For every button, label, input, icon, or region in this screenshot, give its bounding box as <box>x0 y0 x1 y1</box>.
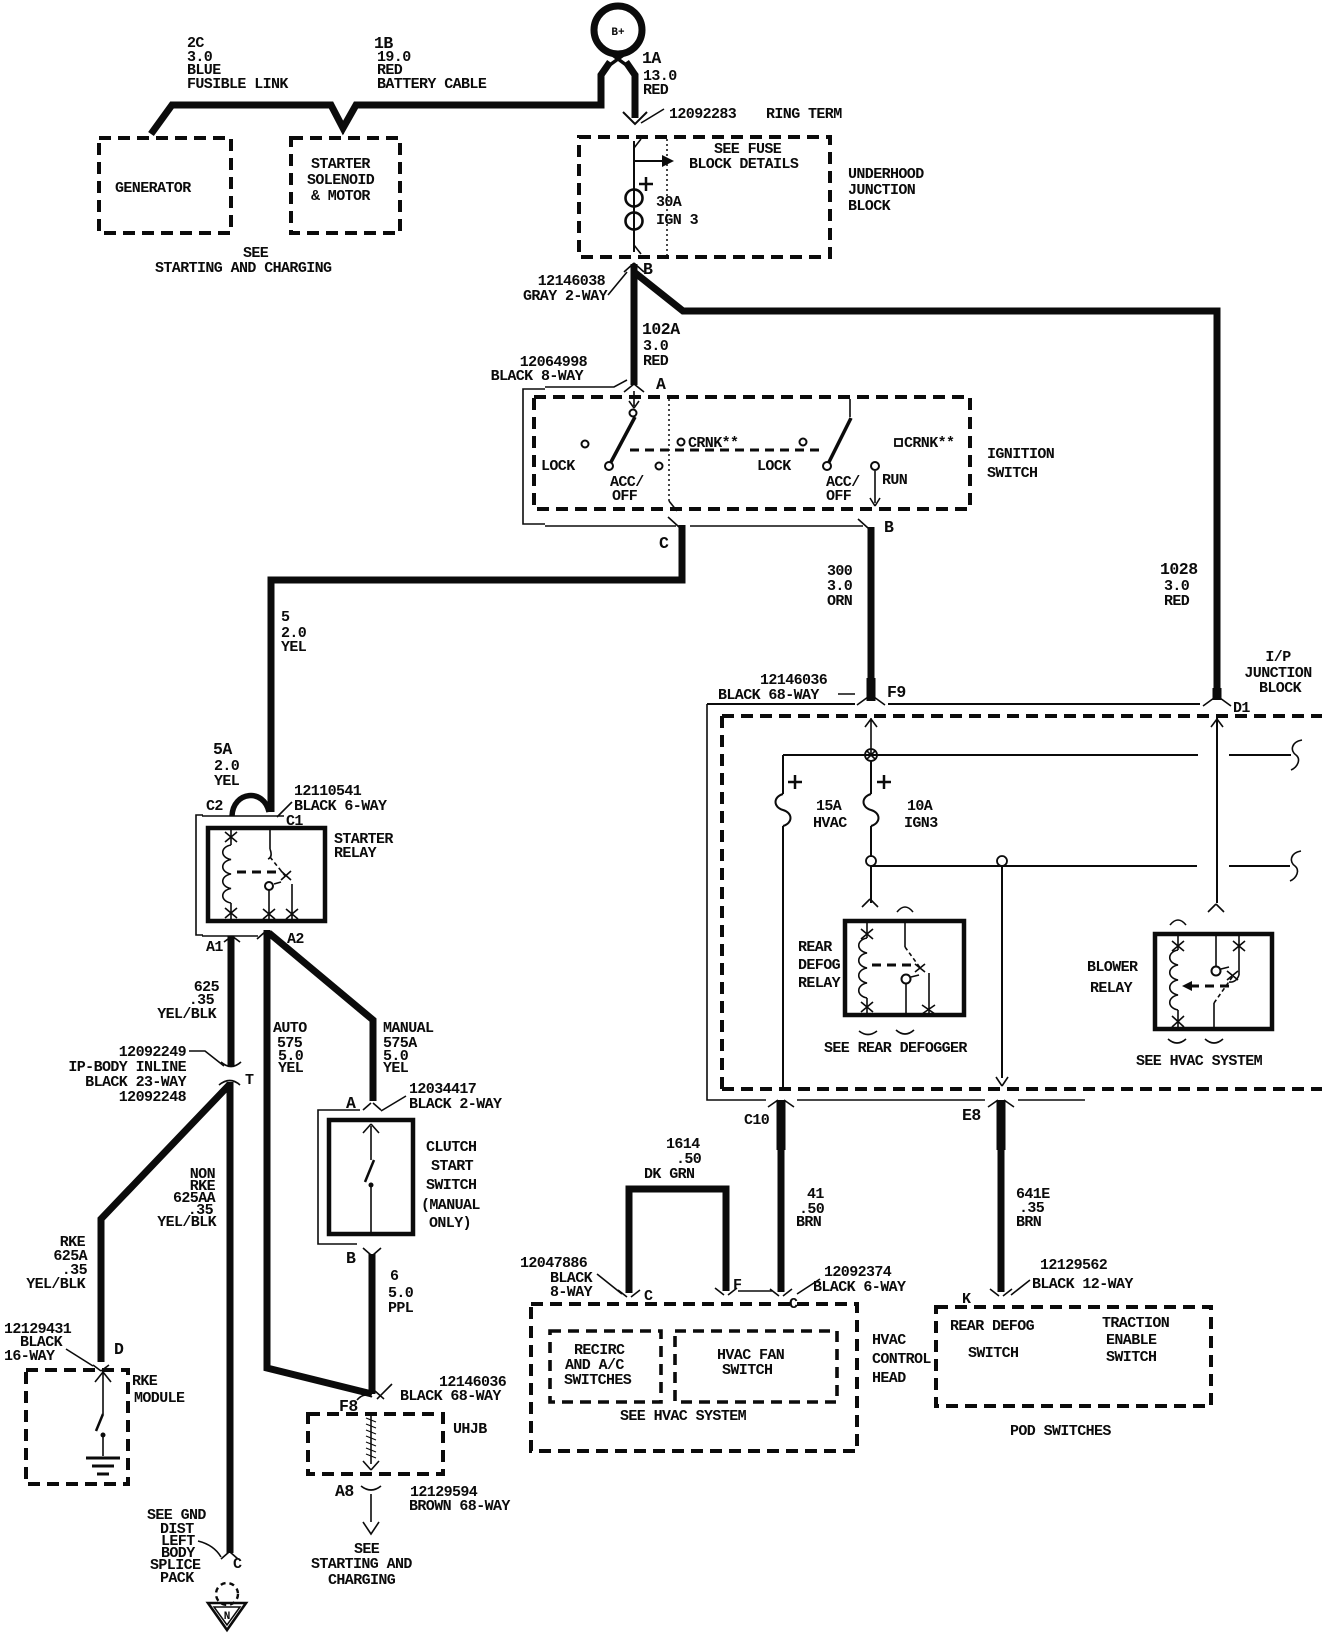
label connector 12034417 BLACK 2-WAY with leader <box>381 1081 502 1113</box>
wire 5A arch into starter relay C1 <box>232 796 269 816</box>
svg-text:REAR: REAR <box>798 939 832 956</box>
svg-text:STARTING AND CHARGING: STARTING AND CHARGING <box>155 260 332 277</box>
label connector 12064998 BLACK 8-WAY with leader <box>491 354 627 387</box>
ignition switch pole 2 feed line <box>849 399 851 417</box>
svg-text:SWITCH: SWITCH <box>987 465 1037 482</box>
wire 1614 jumper loop at HVAC control head <box>629 1189 726 1293</box>
ignition switch dashed box <box>534 397 970 509</box>
connector B of clutch start switch <box>346 1248 381 1268</box>
label see starting and charging <box>311 1541 412 1589</box>
label I/P junction block <box>1244 649 1312 697</box>
label wire 102A <box>642 320 680 370</box>
label rear defog relay <box>798 939 841 992</box>
RKE module internal switch <box>95 1372 111 1456</box>
rear defog relay coil <box>859 921 873 1015</box>
wire from fuse 10A to rail 2 <box>870 826 872 857</box>
ground splice pack circle <box>216 1583 238 1605</box>
svg-text:102A: 102A <box>642 320 680 339</box>
note SEE STARTING AND CHARGING <box>155 245 332 277</box>
svg-text:GENERATOR: GENERATOR <box>115 180 191 197</box>
svg-text:I/P: I/P <box>1265 649 1291 666</box>
svg-text:SWITCH: SWITCH <box>968 1345 1018 1362</box>
svg-text:SOLENOID: SOLENOID <box>307 172 375 189</box>
blower relay switch blade <box>1214 971 1238 1029</box>
starter relay coil <box>223 828 237 921</box>
connector B of ignition switch <box>858 518 894 537</box>
rear defog relay dashed actuator link <box>872 964 916 967</box>
svg-text:E8: E8 <box>962 1106 981 1125</box>
branch arrow SEE FUSE BLOCK DETAILS <box>634 141 799 173</box>
connector A2 of starter relay <box>257 931 304 948</box>
svg-text:BLOCK DETAILS: BLOCK DETAILS <box>689 156 799 173</box>
svg-text:IGN3: IGN3 <box>904 815 938 832</box>
svg-text:ORN: ORN <box>827 593 853 610</box>
label wire 5 <box>281 609 307 656</box>
wire junction stub at starter solenoid <box>342 128 344 134</box>
svg-text:YEL/BLK: YEL/BLK <box>157 1006 216 1023</box>
ground symbol inside RKE module <box>86 1458 120 1474</box>
bus rail 2 inside I/P junction block <box>871 865 1290 867</box>
connector F9 stub <box>857 678 906 705</box>
wire to fuse 10A <box>870 761 872 794</box>
svg-text:5A: 5A <box>213 740 232 759</box>
ignition switch lever 2 wiper contact <box>823 462 831 470</box>
svg-text:STARTER: STARTER <box>311 156 370 173</box>
svg-text:16-WAY: 16-WAY <box>4 1348 55 1365</box>
svg-text:YEL: YEL <box>383 1060 409 1077</box>
fuse 15A HVAC symbol <box>776 794 791 826</box>
svg-text:HEAD: HEAD <box>872 1370 906 1387</box>
wire 6 PPL from clutch switch B to F8 <box>369 1254 376 1394</box>
svg-text:D: D <box>114 1340 124 1359</box>
svg-text:LOCK: LOCK <box>757 458 791 475</box>
blower relay right pin <box>1229 934 1245 982</box>
svg-text:PACK: PACK <box>160 1570 194 1587</box>
svg-text:10A: 10A <box>907 798 933 815</box>
svg-text:JUNCTION: JUNCTION <box>848 182 916 199</box>
svg-text:HVAC: HVAC <box>813 815 847 832</box>
plus polarity mark <box>639 177 653 191</box>
svg-text:TRACTION: TRACTION <box>1102 1315 1170 1332</box>
HVAC control head dashed box <box>531 1304 857 1451</box>
svg-text:LOCK: LOCK <box>541 458 575 475</box>
label fuse 30A IGN 3 <box>656 194 699 229</box>
ignition switch pole 1 entry arrow from A <box>629 391 639 417</box>
svg-text:CRNK**: CRNK** <box>904 435 954 452</box>
label connector 12146036 BLACK 68-WAY at F8 with leader <box>377 1374 507 1405</box>
RUN output line with arrow to B <box>870 471 880 506</box>
svg-text:OFF: OFF <box>612 488 638 505</box>
svg-text:SEE HVAC SYSTEM: SEE HVAC SYSTEM <box>1136 1053 1263 1070</box>
hvac fan switch dashed box <box>675 1331 837 1402</box>
wire 41 from C10 to HVAC control head <box>778 1148 785 1292</box>
label connector 12110541 BLACK 6-WAY with leader <box>277 783 387 817</box>
contact LOCK position pole 2 <box>800 439 807 446</box>
label hvac control head <box>872 1332 931 1387</box>
starter relay connector bracket <box>196 815 203 935</box>
plus mark fuse 15A <box>788 775 802 789</box>
svg-text:PPL: PPL <box>388 1300 414 1317</box>
label clutch start switch <box>421 1139 480 1232</box>
label wire 2C fusible link <box>187 35 288 93</box>
svg-text:SWITCH: SWITCH <box>722 1362 772 1379</box>
starter relay common contact <box>263 882 281 921</box>
connector A of clutch start switch <box>346 1094 381 1113</box>
blower relay pin arc marker <box>1170 920 1186 925</box>
clutch start switch internal contact <box>363 1124 379 1234</box>
label wire 1614 <box>644 1136 702 1183</box>
wire 5 from ignition C to starter relay C1 <box>271 525 682 812</box>
svg-text:BLOCK: BLOCK <box>848 198 891 215</box>
blower relay lower pin arcs <box>1168 1039 1223 1043</box>
svg-text:BLOCK: BLOCK <box>1259 680 1302 697</box>
recirc and a/c switches dashed box <box>550 1331 661 1402</box>
connector D of RKE module <box>93 1340 124 1371</box>
connector F8 of UHJB <box>339 1391 384 1416</box>
label connector 12092374 BLACK 6-WAY with leader <box>797 1264 906 1296</box>
svg-text:UNDERHOOD: UNDERHOOD <box>848 166 924 183</box>
wire 102A from B to ignition switch A <box>631 264 638 385</box>
label see gnd dist left body splice pack with leader <box>147 1507 221 1587</box>
blower relay dashed actuator link with arrow <box>1182 981 1230 991</box>
svg-text:& MOTOR: & MOTOR <box>311 188 370 205</box>
label connector 12129431 BLACK 16-WAY with leader <box>4 1321 93 1366</box>
label wire 625 <box>157 979 219 1023</box>
svg-text:FUSIBLE LINK: FUSIBLE LINK <box>187 76 288 93</box>
label wire 1B battery cable <box>374 34 487 93</box>
bus rail 1 inside I/P junction block <box>783 754 1291 756</box>
svg-text:RED: RED <box>1164 593 1190 610</box>
wire from A8 to starting and charging with arrow <box>363 1494 379 1534</box>
svg-text:T: T <box>245 1072 254 1089</box>
circuit break symbol rail 2 <box>1290 851 1301 881</box>
label wire 1028 <box>1160 560 1198 610</box>
svg-text:RUN: RUN <box>882 472 908 489</box>
svg-text:POD SWITCHES: POD SWITCHES <box>1010 1423 1111 1440</box>
ignition switch label <box>987 446 1055 482</box>
underhood junction block dashed box <box>579 137 830 257</box>
label inline connector labels <box>68 1044 224 1106</box>
svg-text:OFF: OFF <box>826 488 852 505</box>
wire 575A MANUAL from A2 to clutch start switch <box>269 933 373 1101</box>
label fuse 15A HVAC <box>813 798 847 832</box>
svg-text:BLACK 6-WAY: BLACK 6-WAY <box>813 1279 906 1296</box>
label connector 12047886 BLACK 8-WAY with leader <box>520 1255 622 1301</box>
RKE module dashed box <box>26 1370 128 1484</box>
svg-text:A: A <box>656 375 666 394</box>
svg-text:BLACK 6-WAY: BLACK 6-WAY <box>294 798 387 815</box>
clutch start switch connector bracket <box>318 1110 360 1244</box>
svg-text:1A: 1A <box>642 49 661 68</box>
svg-text:SWITCH: SWITCH <box>426 1177 476 1194</box>
starter relay dashed actuator link <box>237 871 282 874</box>
svg-text:B+: B+ <box>611 27 625 39</box>
generator box <box>99 138 231 233</box>
svg-text:YEL: YEL <box>281 639 307 656</box>
svg-text:BATTERY CABLE: BATTERY CABLE <box>377 76 487 93</box>
svg-text:1028: 1028 <box>1160 560 1198 579</box>
label RKE module <box>132 1373 185 1407</box>
svg-text:RKE: RKE <box>132 1373 158 1390</box>
svg-text:YEL/BLK: YEL/BLK <box>157 1214 216 1231</box>
wire to fuse 15A <box>782 755 784 794</box>
svg-text:A2: A2 <box>287 931 304 948</box>
wire rail 2 down to rear defog relay <box>870 866 872 903</box>
svg-text:CLUTCH: CLUTCH <box>426 1139 476 1156</box>
rear defog relay pin arc marker <box>897 907 913 912</box>
ignition switch lever 1 wiper contact <box>605 462 613 470</box>
svg-text:BLACK 68-WAY: BLACK 68-WAY <box>718 687 819 704</box>
connector B of underhood junction block <box>624 260 653 279</box>
svg-text:SEE HVAC SYSTEM: SEE HVAC SYSTEM <box>620 1408 747 1425</box>
rear defog relay output pin <box>922 973 935 1015</box>
svg-text:RED: RED <box>643 353 669 370</box>
fuse feed wire inside underhood junction block <box>634 139 641 254</box>
svg-text:HVAC: HVAC <box>872 1332 906 1349</box>
svg-text:15A: 15A <box>816 798 842 815</box>
ignition switch lever 2 <box>829 418 851 462</box>
svg-text:6: 6 <box>390 1268 399 1285</box>
svg-text:30A: 30A <box>656 194 682 211</box>
connector E8 stub <box>962 1100 1014 1150</box>
I/P junction block connector strip line <box>707 703 1200 705</box>
rear defog relay feed connector flare <box>862 899 878 907</box>
svg-text:START: START <box>431 1158 474 1175</box>
svg-text:UHJB: UHJB <box>453 1421 487 1438</box>
starter solenoid and motor box <box>291 138 400 233</box>
wire 300 from ignition B to I/P junction block F9 <box>868 527 875 700</box>
svg-text:BRN: BRN <box>796 1214 822 1231</box>
battery positive terminal B+ <box>594 6 642 67</box>
wire 641E from E8 to pod switches K <box>998 1148 1005 1292</box>
label connector 12146036 BLACK 68-WAY at F9 <box>718 672 855 704</box>
label starter relay <box>334 831 393 862</box>
label wire 575A manual <box>383 1020 434 1077</box>
label wire 625A rke <box>26 1234 87 1293</box>
wire 1028 branch from B to I/P junction block D1 <box>634 272 1217 690</box>
svg-text:IGN 3: IGN 3 <box>656 212 699 229</box>
label wire 300 <box>827 563 853 610</box>
contact RUN position pole 2 <box>871 462 879 470</box>
splice C to ground distribution <box>221 1552 242 1573</box>
wire 1A from B+ to underhood junction block <box>626 62 635 118</box>
dotted partition inside underhood junction block <box>666 139 668 255</box>
UHJB dashed box <box>308 1414 443 1474</box>
starter relay connector strip line C row <box>202 815 284 817</box>
svg-text:C: C <box>659 534 669 553</box>
fuse 30A IGN 3 symbol <box>626 190 643 230</box>
svg-text:B: B <box>884 518 894 537</box>
contact CRNK position pole 2 square <box>895 439 902 446</box>
wire 625 from A1 down to inline connector T <box>228 936 235 1066</box>
svg-text:YEL/BLK: YEL/BLK <box>26 1276 85 1293</box>
label fuse 10A IGN3 <box>904 798 938 832</box>
svg-text:A8: A8 <box>335 1482 354 1501</box>
mechanical link dashed between poles <box>630 449 824 452</box>
svg-text:GRAY 2-WAY: GRAY 2-WAY <box>523 288 608 305</box>
svg-text:REAR DEFOG: REAR DEFOG <box>950 1318 1035 1335</box>
label wire 6 <box>388 1268 414 1317</box>
svg-text:(MANUAL: (MANUAL <box>421 1197 480 1214</box>
connector D1 stub <box>1203 688 1250 717</box>
svg-text:RELAY: RELAY <box>1090 980 1133 997</box>
svg-text:12092248: 12092248 <box>119 1089 187 1106</box>
svg-text:BLACK 12-WAY: BLACK 12-WAY <box>1032 1276 1133 1293</box>
rear defog relay switch pin and blade <box>905 921 925 972</box>
label rear defog switch <box>950 1318 1035 1362</box>
label connector 12129594 BROWN 68-WAY <box>409 1484 510 1515</box>
svg-text:DEFOG: DEFOG <box>798 957 841 974</box>
svg-text:ONLY): ONLY) <box>429 1215 471 1232</box>
label wire 641E <box>1016 1186 1050 1231</box>
blower relay coil <box>1170 934 1184 1029</box>
svg-text:5: 5 <box>281 609 290 626</box>
pod switches dashed box <box>936 1307 1211 1406</box>
svg-text:C: C <box>789 1296 798 1313</box>
svg-text:C2: C2 <box>206 798 223 815</box>
svg-text:F9: F9 <box>887 683 906 702</box>
ignition switch lever 1 <box>611 417 635 462</box>
label 12092283 ring terminal with leader <box>641 106 842 123</box>
HVAC control head connector strip line <box>738 1290 772 1292</box>
plus mark fuse 10A <box>877 775 891 789</box>
connector A8 of UHJB <box>335 1482 381 1501</box>
wire 1B battery cable from B+ to starter solenoid and generator <box>151 62 610 134</box>
label wire 575 auto <box>273 1020 307 1077</box>
svg-text:SWITCHES: SWITCHES <box>564 1372 632 1389</box>
ignition switch connector bracket <box>523 389 545 524</box>
svg-text:RELAY: RELAY <box>334 845 377 862</box>
contact ACC position pole 1 <box>656 463 663 470</box>
starter relay switch pin and blade <box>268 828 291 880</box>
wire 625A RKE from T to RKE module <box>101 1084 230 1362</box>
svg-text:BLACK 68-WAY: BLACK 68-WAY <box>400 1388 501 1405</box>
svg-text:ENABLE: ENABLE <box>1106 1332 1157 1349</box>
label blower relay <box>1087 959 1138 997</box>
ground triangle N <box>208 1603 246 1630</box>
svg-text:B: B <box>346 1249 356 1268</box>
wire from D1 down to blower relay <box>1216 718 1218 903</box>
svg-text:IGNITION: IGNITION <box>987 446 1055 463</box>
svg-text:BROWN 68-WAY: BROWN 68-WAY <box>409 1498 510 1515</box>
label wire 625AA non rke <box>157 1166 216 1231</box>
junction circle rail 2 at E8 tap <box>997 856 1007 866</box>
svg-text:C: C <box>233 1556 242 1573</box>
F9 entry line with up arrow <box>865 718 877 755</box>
inline connector T 12092249/12092248 <box>219 1062 254 1089</box>
splice junction circle at F9 feed <box>865 749 877 761</box>
label wire 1A <box>642 49 677 99</box>
starter relay box <box>208 828 325 921</box>
label underhood junction block <box>848 166 924 215</box>
dotted partition in ignition switch <box>668 399 670 503</box>
svg-text:MODULE: MODULE <box>134 1390 185 1407</box>
ring terminal arrowhead <box>623 112 647 124</box>
blower relay feed connector flare <box>1208 904 1224 912</box>
label ACC/OFF pole 1 <box>610 474 644 505</box>
svg-text:YEL: YEL <box>278 1060 304 1077</box>
wire 575 AUTO from A2 down to F8 <box>267 930 372 1394</box>
blower relay common contact <box>1212 934 1230 976</box>
label connector 12146038 GRAY 2-WAY with leader <box>523 272 627 305</box>
hatched bus wire inside UHJB with arrow <box>363 1414 379 1470</box>
connector C of ignition switch <box>659 517 679 553</box>
rear defog relay box <box>845 921 964 1015</box>
svg-text:A1: A1 <box>206 939 223 956</box>
connector A of ignition switch <box>624 375 666 394</box>
I/P junction block dashed boundary <box>722 716 1322 1089</box>
svg-text:STARTING AND: STARTING AND <box>311 1556 412 1573</box>
ignition switch connector strip line <box>545 525 863 527</box>
circuit break symbol rail 1 <box>1291 740 1302 770</box>
svg-text:DK GRN: DK GRN <box>644 1166 695 1183</box>
fuse 10A IGN3 symbol <box>864 794 879 826</box>
rear defog relay lower pin arcs <box>859 1030 914 1035</box>
svg-text:YEL: YEL <box>214 773 240 790</box>
rear defog relay common contact <box>902 975 920 1016</box>
wire from rail 2 tap down to E8 with arrow <box>1001 866 1003 1078</box>
label traction enable switch <box>1102 1315 1170 1366</box>
svg-text:BLACK 2-WAY: BLACK 2-WAY <box>409 1096 502 1113</box>
svg-text:BRN: BRN <box>1016 1214 1042 1231</box>
svg-text:RELAY: RELAY <box>798 975 841 992</box>
wire 625AA NON RKE from T to ground splice C <box>227 1082 234 1553</box>
svg-text:RING TERM: RING TERM <box>766 106 842 123</box>
contact CRNK position pole 1 <box>678 439 685 446</box>
clutch start switch box <box>329 1120 413 1234</box>
starter relay output pin <box>286 884 298 921</box>
svg-text:12092283: 12092283 <box>669 106 737 123</box>
svg-text:SEE REAR DEFOGGER: SEE REAR DEFOGGER <box>824 1040 967 1057</box>
svg-text:SWITCH: SWITCH <box>1106 1349 1156 1366</box>
svg-text:12129562: 12129562 <box>1040 1257 1108 1274</box>
connector A1 of starter relay <box>206 936 240 956</box>
blower relay box <box>1155 934 1272 1029</box>
svg-text:BLACK 8-WAY: BLACK 8-WAY <box>491 368 584 385</box>
junction circle rail 2 at rear defog feed <box>866 856 876 866</box>
I/P junction block outer bracket <box>707 704 1085 1100</box>
svg-text:CHARGING: CHARGING <box>328 1572 396 1589</box>
svg-text:CONTROL: CONTROL <box>872 1351 931 1368</box>
svg-text:8-WAY: 8-WAY <box>550 1284 593 1301</box>
connector C10 stub <box>744 1100 794 1150</box>
svg-text:BLOWER: BLOWER <box>1087 959 1138 976</box>
svg-text:C10: C10 <box>744 1112 770 1129</box>
contact LOCK position pole 1 <box>582 441 589 448</box>
wire from fuse 15A down to C10 <box>782 826 784 1087</box>
label ACC/OFF pole 2 <box>826 474 860 505</box>
label wire 41 <box>796 1186 825 1231</box>
label wire 5A <box>213 740 240 790</box>
starter relay connector strip line A row <box>202 935 258 937</box>
label connector 12129562 BLACK 12-WAY with leader <box>1011 1257 1133 1295</box>
svg-text:RED: RED <box>643 82 669 99</box>
svg-text:N: N <box>224 1611 231 1623</box>
